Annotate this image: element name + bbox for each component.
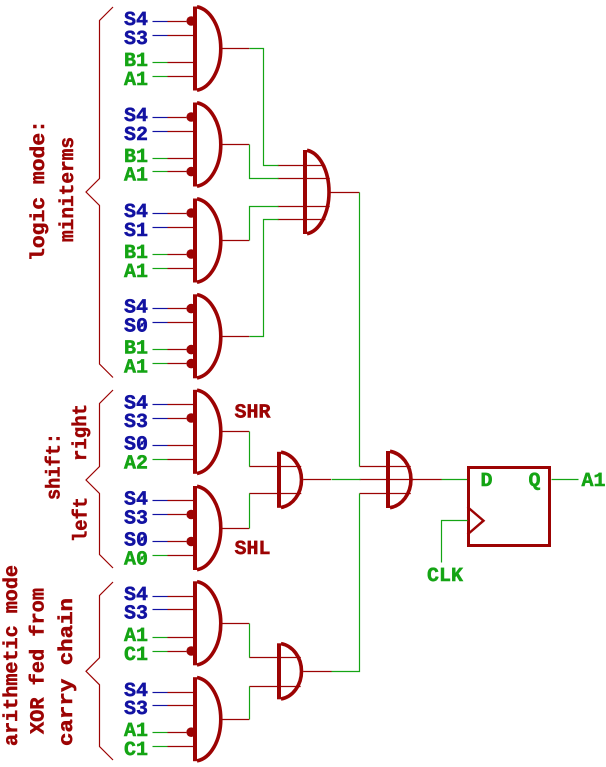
svg-text:A1: A1	[124, 165, 148, 188]
svg-text:A1: A1	[124, 357, 148, 380]
wire S3 to U7 pin 2	[153, 609, 195, 611]
wire A1 to U8 pin 3	[153, 732, 187, 734]
svg-text:S3: S3	[124, 603, 148, 626]
inverted-input bubble U6 pin 2	[186, 510, 196, 520]
inverted-input bubble U6 pin 3	[186, 537, 196, 547]
svg-text:logic mode:: logic mode:	[28, 120, 51, 261]
U9 input pins	[278, 166, 304, 220]
wire S3 to U8 pin 2	[153, 705, 195, 707]
wire U4 out to U9 in4	[250, 220, 279, 337]
wire S0 to U4 pin 2	[153, 322, 195, 324]
wire C1 to U8 pin 4	[153, 746, 195, 748]
svg-text:carry chain: carry chain	[56, 598, 79, 746]
brace: logic mode group	[86, 7, 113, 378]
U12 output pin	[303, 671, 331, 673]
svg-text:left: left	[71, 497, 94, 542]
wire S4 to U8 pin 1	[153, 692, 195, 694]
wire U10 out to U11 in2	[332, 479, 361, 481]
U13 clock edge triangle	[468, 507, 484, 535]
svg-text:A0: A0	[124, 549, 148, 572]
svg-text:SHR: SHR	[235, 402, 271, 425]
svg-text:XOR fed from: XOR fed from	[28, 588, 51, 734]
wire S4 to U6 pin 1	[153, 500, 195, 502]
wire S3 to U5 pin 2	[153, 418, 187, 420]
wire B1 to U1 pin 3	[153, 62, 195, 64]
svg-text:S1: S1	[124, 220, 148, 243]
OR gate U12 body	[277, 643, 301, 699]
wire A2 to U5 pin 4	[153, 459, 195, 461]
wire U7 out to U12 in1	[249, 624, 251, 658]
svg-text:CLK: CLK	[427, 565, 463, 588]
wire S4 to U2 pin 1	[153, 117, 187, 119]
wire S4 to U5 pin 1	[153, 404, 195, 406]
wire S1 to U3 pin 2	[153, 227, 195, 229]
wire A1 to U4 pin 4	[153, 363, 187, 365]
AND gate U1 body	[193, 7, 221, 91]
AND gate U2 body	[193, 103, 221, 187]
svg-text:S3: S3	[124, 28, 148, 51]
wire A1 to U2 pin 4	[153, 171, 187, 173]
slashed zero of S0 (U4 pin 2)	[138, 321, 145, 329]
U10 output pin	[303, 479, 331, 481]
U6 output pin	[222, 528, 249, 530]
U3 output pin	[222, 240, 249, 242]
inverted-input bubble U3 pin 3	[186, 249, 196, 259]
wire B1 to U3 pin 3	[153, 254, 187, 256]
wire S4 to U4 pin 1	[153, 308, 187, 310]
wire Q output to A1	[552, 479, 579, 481]
wire S4 to U1 pin 1	[153, 21, 187, 23]
svg-text:A1: A1	[124, 69, 148, 92]
svg-text:D: D	[480, 470, 492, 493]
OR gate U9 body	[303, 150, 330, 234]
brace: shift group	[86, 390, 113, 568]
wire C1 to U7 pin 4	[153, 651, 187, 653]
inverted-input bubble U8 pin 3	[186, 727, 196, 737]
svg-text:S3: S3	[124, 411, 148, 434]
inverted-input bubble U2 pin 1	[186, 112, 196, 122]
U9 output pin	[330, 192, 359, 194]
AND gate U5 body	[193, 390, 221, 474]
slashed zero of S0 (U5 pin 3)	[138, 439, 145, 447]
AND gate U7 body	[193, 581, 221, 665]
svg-text:C1: C1	[124, 644, 148, 667]
svg-text:S3: S3	[124, 698, 148, 721]
OR gate U11 body	[386, 451, 414, 508]
wire S0 to U5 pin 3	[153, 445, 195, 447]
svg-text:SHL: SHL	[235, 538, 271, 561]
wire B1 to U4 pin 3	[153, 349, 187, 351]
inverted-input bubble U2 pin 4	[186, 167, 196, 177]
AND gate U6 body	[193, 486, 221, 570]
U11 output pin	[413, 479, 442, 481]
U11 input pins	[360, 467, 387, 494]
OR gate U10 body	[277, 452, 301, 508]
wire U6 out to U10 in2	[249, 494, 251, 529]
U12 input pins	[249, 658, 277, 687]
inverted-input bubble U4 pin 3	[186, 345, 196, 355]
U5 output pin	[222, 431, 249, 433]
svg-text:miniterms: miniterms	[57, 137, 80, 242]
wire S0 to U6 pin 3	[153, 541, 187, 543]
AND gate U4 body	[193, 294, 221, 378]
inverted-input bubble U4 pin 1	[186, 304, 196, 314]
U1 output pin	[222, 48, 249, 50]
svg-text:S2: S2	[124, 124, 148, 147]
svg-text:C1: C1	[124, 739, 148, 762]
wire U1 out to U9 in1	[250, 49, 279, 166]
svg-text:A2: A2	[124, 453, 148, 476]
U4 output pin	[222, 336, 249, 338]
inverted-input bubble U3 pin 1	[186, 208, 196, 218]
AND gate U8 body	[193, 677, 221, 761]
wire A1 to U7 pin 3	[153, 637, 195, 639]
inverted-input bubble U4 pin 4	[186, 359, 196, 369]
wire U3 out to U9 in3	[250, 207, 279, 241]
svg-text:A1: A1	[582, 470, 606, 493]
wire U5 out to U10 in1	[249, 432, 251, 467]
wire U2 out to U9 in2	[250, 145, 279, 179]
wire B1 to U2 pin 3	[153, 158, 195, 160]
U10 input pins	[249, 467, 277, 494]
wire U12 out to U11 in3	[332, 494, 360, 672]
svg-text:S3: S3	[124, 508, 148, 531]
slashed zero of S0 (U6 pin 3)	[138, 535, 145, 543]
wire U9 out to U11 in1	[359, 193, 361, 467]
wire S2 to U2 pin 2	[153, 131, 195, 133]
inverted-input bubble U1 pin 1	[186, 16, 196, 26]
brace: arithmetic group	[86, 582, 113, 760]
svg-text:right: right	[70, 404, 93, 461]
inverted-input bubble U5 pin 2	[186, 413, 196, 423]
svg-text:shift:: shift:	[44, 433, 67, 500]
svg-text:S0: S0	[124, 316, 148, 339]
svg-text:A1: A1	[124, 261, 148, 284]
wire S3 to U6 pin 2	[153, 514, 187, 516]
inverted-input bubble U7 pin 4	[186, 646, 196, 656]
slashed zero of A0 (U6 pin 4)	[138, 554, 145, 562]
D flip-flop U13 box	[469, 468, 550, 546]
U8 output pin	[222, 719, 249, 721]
wire S3 to U1 pin 2	[153, 35, 195, 37]
wire S4 to U7 pin 1	[153, 596, 195, 598]
wire U8 out to U12 in2	[249, 687, 251, 720]
wire A0 to U6 pin 4	[153, 555, 195, 557]
AND gate U3 body	[193, 199, 221, 283]
wire A1 to U1 pin 4	[153, 76, 195, 78]
wire A1 to U3 pin 4	[153, 268, 195, 270]
svg-text:arithmetic mode: arithmetic mode	[1, 565, 24, 746]
U7 output pin	[222, 623, 249, 625]
wire S4 to U3 pin 1	[153, 213, 187, 215]
wire U11 out to U13 D input	[442, 479, 468, 481]
U2 output pin	[222, 144, 249, 146]
svg-text:Q: Q	[528, 470, 540, 493]
wire CLK to U13 clock	[442, 521, 468, 563]
